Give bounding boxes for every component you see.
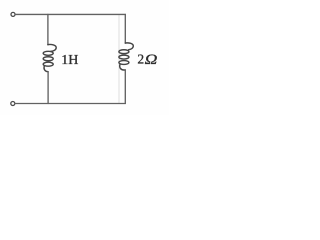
wire right branch bottom [124,70,126,104]
wire left branch top [47,14,49,44]
wire left branch bottom [47,72,49,104]
wire right branch top [124,14,126,43]
inductor L1 1H [43,44,56,71]
svg-text:Ω: Ω [145,52,158,68]
inductor R 2 ohm [119,43,133,70]
terminal top-left [11,12,15,16]
terminal bottom-left [11,102,15,106]
wire bottom rail [15,103,125,105]
svg-text:1H: 1H [61,53,78,68]
svg-text:2: 2 [137,52,144,67]
scan artifact faint vertical line [118,15,120,103]
wire top rail [15,13,125,15]
